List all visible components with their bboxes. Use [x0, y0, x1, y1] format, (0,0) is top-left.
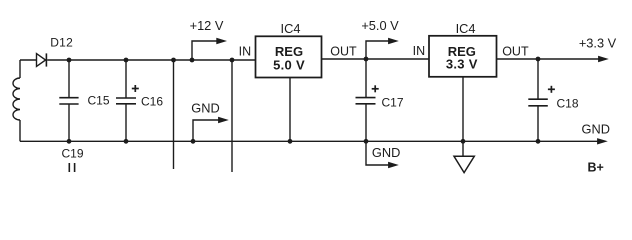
- node dot GND left branch: [191, 139, 196, 144]
- svg-text:OUT: OUT: [330, 44, 357, 58]
- svg-text:B+: B+: [588, 161, 604, 175]
- net arrow +12 V: [192, 38, 227, 60]
- svg-text:C17: C17: [382, 96, 404, 110]
- svg-text:IN: IN: [413, 44, 426, 58]
- net arrow +5.0 V: [366, 38, 399, 59]
- polarity plus C18: [548, 86, 555, 93]
- svg-text:GND: GND: [582, 122, 610, 137]
- wire bottom GND rail: [20, 140, 599, 142]
- svg-text:GND: GND: [372, 145, 400, 160]
- diode D12: [37, 53, 47, 66]
- wire rail REG2 OUT to +3.3V: [497, 58, 600, 60]
- net arrow GND (middle below rail): [366, 141, 399, 168]
- regulator U IC4 (5.0 V): [256, 36, 322, 77]
- wire rail REG1 OUT to REG2 IN: [322, 58, 430, 60]
- node dot branch x=232: [230, 58, 235, 63]
- svg-text:IC4: IC4: [281, 21, 301, 36]
- node dot REG2 gnd: [461, 139, 466, 144]
- wire top rail left segment (anode side): [20, 59, 37, 61]
- svg-text:3.3 V: 3.3 V: [446, 57, 478, 72]
- node dot C17 bottom: [364, 139, 369, 144]
- svg-text:D12: D12: [50, 36, 73, 50]
- svg-text:OUT: OUT: [502, 45, 529, 59]
- arrowhead +3.3 V: [598, 56, 609, 62]
- node dot REG1 gnd: [288, 139, 293, 144]
- inductor L (coil): [13, 78, 20, 120]
- node dot +12V branch: [190, 58, 195, 63]
- svg-text:+3.3 V: +3.3 V: [579, 36, 617, 51]
- capacitor C17: [356, 59, 376, 141]
- node dot C16 bottom: [124, 139, 129, 144]
- svg-text:5.0 V: 5.0 V: [273, 58, 305, 73]
- capacitor C19 plates (cropped at image bottom): [69, 163, 74, 172]
- wire left vertical top: [19, 60, 21, 78]
- svg-text:C15: C15: [88, 94, 110, 108]
- svg-text:+12 V: +12 V: [190, 18, 224, 33]
- polarity plus C16: [132, 85, 139, 92]
- node dot +5V branch: [364, 57, 369, 62]
- wire vertical branch (to circuit below, x=173.5): [173, 60, 175, 169]
- polarity plus C17: [372, 85, 379, 92]
- wire top rail left (cathode to REG1 IN): [47, 59, 255, 61]
- node dot C15 bottom: [67, 139, 72, 144]
- capacitor C16: [116, 60, 136, 141]
- node dot C15 top: [67, 58, 72, 63]
- svg-text:IN: IN: [239, 44, 252, 58]
- svg-text:C19: C19: [62, 147, 84, 161]
- wire left vertical bottom: [19, 120, 21, 141]
- wire REG1 ground pin: [289, 78, 291, 142]
- arrowhead bottom GND rail: [597, 138, 608, 144]
- svg-text:IC4: IC4: [456, 21, 476, 36]
- wire REG2 ground pin: [462, 77, 464, 142]
- svg-text:GND: GND: [191, 101, 219, 116]
- svg-text:+5.0 V: +5.0 V: [361, 18, 399, 33]
- node dot C18 bottom: [536, 139, 541, 144]
- svg-text:C18: C18: [557, 97, 579, 111]
- regulator U IC4 (3.3 V): [429, 36, 497, 77]
- wire vertical branch (to circuit below, x=232): [231, 60, 233, 172]
- net arrow GND (left): [193, 117, 229, 142]
- node dot branch x=173.5: [171, 58, 176, 63]
- capacitor C18: [528, 59, 548, 141]
- ground symbol (open triangle): [454, 141, 474, 172]
- node dot C18 top: [536, 57, 541, 62]
- node dot C16 top: [124, 58, 129, 63]
- svg-text:C16: C16: [141, 95, 163, 109]
- capacitor C15: [59, 60, 78, 141]
